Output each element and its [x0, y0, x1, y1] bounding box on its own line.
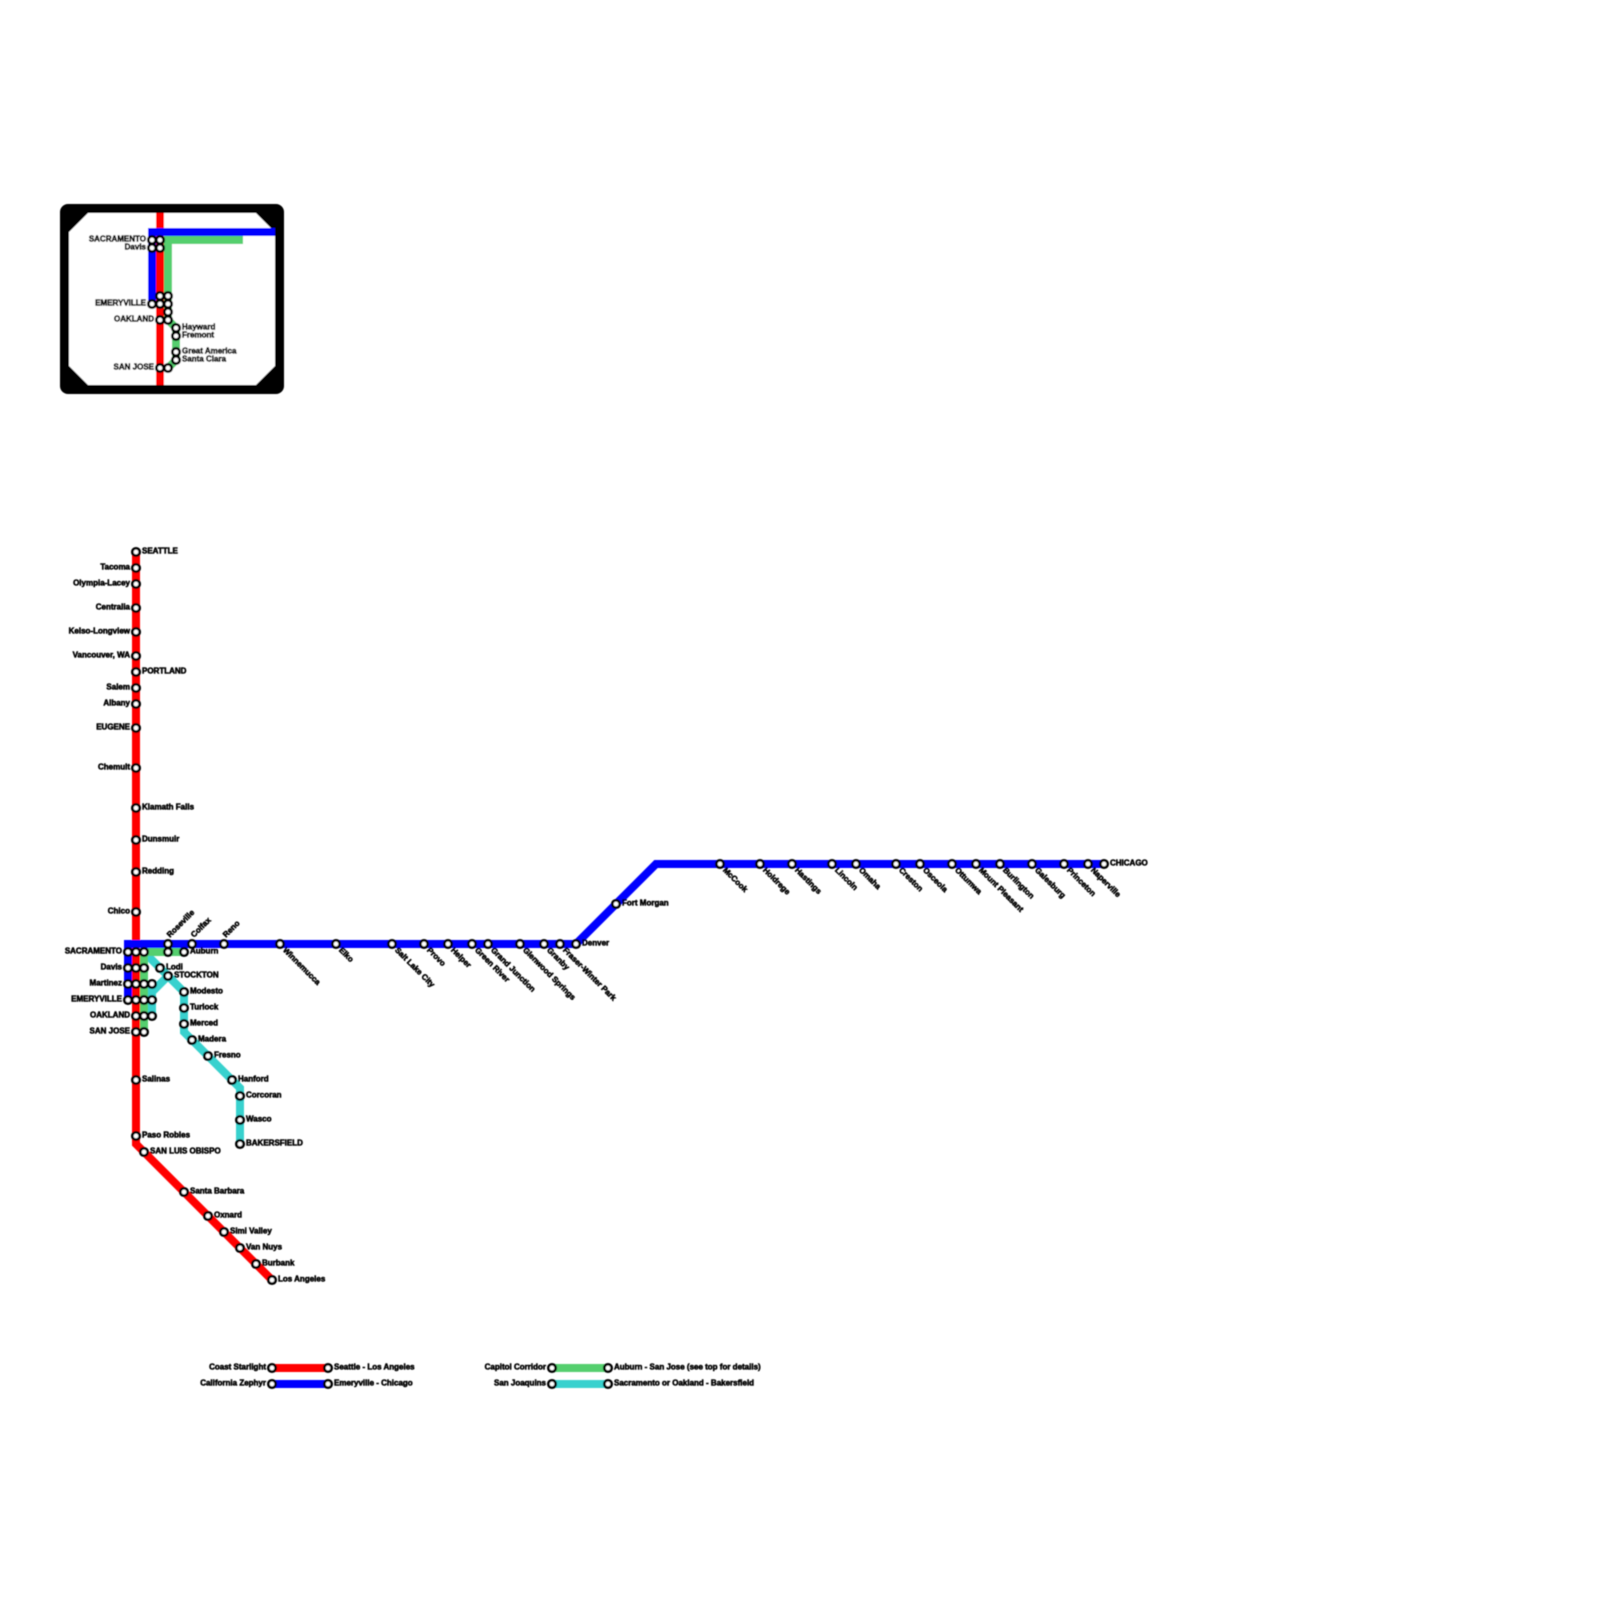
- svg-text:CHICAGO: CHICAGO: [1110, 859, 1148, 868]
- svg-text:Auburn - San Jose (see top for: Auburn - San Jose (see top for details): [614, 1363, 761, 1372]
- svg-text:Santa Clara: Santa Clara: [182, 355, 227, 364]
- svg-text:Salem: Salem: [106, 683, 130, 692]
- svg-text:California Zephyr: California Zephyr: [200, 1379, 266, 1388]
- svg-text:Corcoran: Corcoran: [246, 1091, 282, 1100]
- svg-text:Modesto: Modesto: [190, 987, 223, 996]
- svg-text:Santa Barbara: Santa Barbara: [190, 1187, 245, 1196]
- svg-text:Denver: Denver: [582, 939, 609, 948]
- svg-text:Coast Starlight: Coast Starlight: [209, 1363, 266, 1372]
- San Joaquins (cyan) lines: [144, 952, 240, 1144]
- svg-text:Salinas: Salinas: [142, 1075, 171, 1084]
- svg-text:SAN LUIS OBISPO: SAN LUIS OBISPO: [150, 1147, 221, 1156]
- svg-text:Burbank: Burbank: [262, 1259, 295, 1268]
- svg-text:Van Nuys: Van Nuys: [246, 1243, 283, 1252]
- svg-text:Fort Morgan: Fort Morgan: [622, 899, 669, 908]
- svg-text:OAKLAND: OAKLAND: [114, 315, 154, 324]
- west column station rows (Sacramento..San Jose): [124, 948, 131, 955]
- svg-text:Emeryville - Chicago: Emeryville - Chicago: [334, 1379, 413, 1388]
- svg-text:Turlock: Turlock: [190, 1003, 219, 1012]
- svg-text:Chico: Chico: [108, 907, 130, 916]
- svg-text:Capitol Corridor: Capitol Corridor: [485, 1363, 546, 1372]
- svg-text:Tacoma: Tacoma: [100, 563, 130, 572]
- svg-text:EMERYVILLE: EMERYVILLE: [95, 299, 146, 308]
- svg-text:Martinez: Martinez: [90, 979, 122, 988]
- Capitol Corridor stations: [164, 948, 171, 955]
- svg-text:Olympia-Lacey: Olympia-Lacey: [73, 579, 130, 588]
- svg-text:Davis: Davis: [125, 243, 147, 252]
- svg-text:SAN JOSE: SAN JOSE: [114, 363, 155, 372]
- svg-text:Merced: Merced: [190, 1019, 218, 1028]
- svg-text:STOCKTON: STOCKTON: [174, 971, 219, 980]
- svg-text:EMERYVILLE: EMERYVILLE: [71, 995, 122, 1004]
- Coast Starlight stations: [132, 548, 139, 555]
- svg-text:Madera: Madera: [198, 1035, 227, 1044]
- svg-text:Klamath Falls: Klamath Falls: [142, 803, 195, 812]
- svg-text:Los Angeles: Los Angeles: [278, 1275, 326, 1284]
- legend: [272, 1364, 328, 1372]
- svg-text:Oxnard: Oxnard: [214, 1211, 242, 1220]
- California Zephyr (blue) line: [128, 864, 1104, 1000]
- svg-text:Chemult: Chemult: [98, 763, 130, 772]
- svg-text:SACRAMENTO: SACRAMENTO: [65, 947, 122, 956]
- svg-text:SAN JOSE: SAN JOSE: [90, 1027, 131, 1036]
- svg-text:Fremont: Fremont: [182, 331, 214, 340]
- svg-text:Albany: Albany: [103, 699, 130, 708]
- inset lines: [156, 213, 164, 385]
- svg-text:San Joaquins: San Joaquins: [494, 1379, 547, 1388]
- svg-text:Dunsmuir: Dunsmuir: [142, 835, 179, 844]
- svg-text:OAKLAND: OAKLAND: [90, 1011, 130, 1020]
- svg-text:Paso Robles: Paso Robles: [142, 1131, 191, 1140]
- svg-text:Kelso-Longview: Kelso-Longview: [69, 627, 131, 636]
- svg-text:Hanford: Hanford: [238, 1075, 269, 1084]
- California Zephyr stations: [164, 940, 171, 947]
- svg-text:Wasco: Wasco: [246, 1115, 272, 1124]
- svg-text:Simi Valley: Simi Valley: [230, 1227, 272, 1236]
- inset frame: [60, 204, 284, 394]
- svg-text:PORTLAND: PORTLAND: [142, 667, 187, 676]
- svg-text:SEATTLE: SEATTLE: [142, 547, 179, 556]
- svg-text:Auburn: Auburn: [190, 947, 219, 956]
- inset stations: [148, 236, 155, 243]
- svg-text:BAKERSFIELD: BAKERSFIELD: [246, 1139, 303, 1148]
- svg-text:Sacramento or Oakland - Bakers: Sacramento or Oakland - Bakersfield: [614, 1379, 754, 1388]
- San Joaquins stations: [156, 964, 163, 971]
- Capitol Corridor (green) line: [144, 952, 184, 1032]
- svg-text:Redding: Redding: [142, 867, 174, 876]
- svg-text:Davis: Davis: [101, 963, 123, 972]
- svg-text:Vancouver, WA: Vancouver, WA: [73, 651, 131, 660]
- svg-text:Centralia: Centralia: [96, 603, 131, 612]
- svg-text:Seattle - Los Angeles: Seattle - Los Angeles: [334, 1363, 415, 1372]
- svg-text:EUGENE: EUGENE: [96, 723, 130, 732]
- svg-text:Fresno: Fresno: [214, 1051, 241, 1060]
- Coast Starlight (red) line: [136, 552, 272, 1280]
